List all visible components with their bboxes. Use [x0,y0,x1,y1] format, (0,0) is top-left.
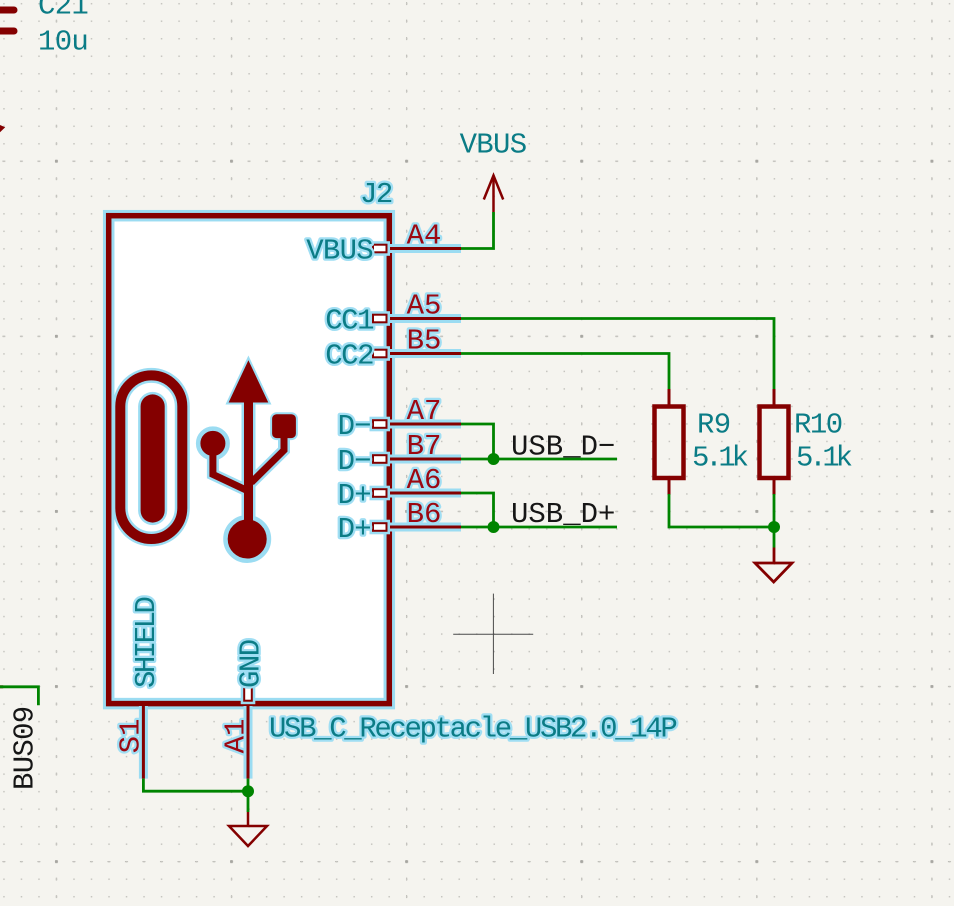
pin number A1 [219,719,252,754]
svg-text:D+: D+ [338,513,371,546]
svg-text:VBUS: VBUS [306,235,373,268]
svg-text:R9: R9 [697,409,730,442]
resistor R10 [760,389,852,495]
svg-text:VBUS: VBUS [460,129,527,162]
wire S1/A1 to GND [143,779,248,792]
wire R10 bottom [773,494,776,527]
junction D+ [488,521,500,533]
pin number A5 [407,290,442,323]
pin B7 [373,455,461,463]
USB logo: connector stadium [120,375,182,539]
USB logo: trident [198,361,295,560]
svg-text:GND: GND [234,640,267,688]
wire B7 USB_D- [461,458,617,461]
junction GND bottom [242,785,254,797]
pin number A6 [407,464,442,497]
pin name D+ (A6) [338,479,371,512]
wire CC1 to R10 [461,319,774,391]
pin A1 [244,687,252,778]
pin number B7 [407,430,442,463]
pin number S1 [115,719,148,754]
pin name VBUS [306,235,373,268]
pin name D+ (B6) [338,513,371,546]
power VBUS [460,129,527,213]
svg-text:R10: R10 [794,409,842,442]
pin A7 [373,420,461,428]
svg-text:B6: B6 [407,498,442,531]
pin B6 [373,523,461,531]
pin A5 [373,315,461,323]
pin S1 [139,706,148,779]
power GND (bottom) [229,791,267,846]
power GND (right) [755,527,792,582]
pin name SHIELD [130,597,163,688]
svg-text:C21: C21 [38,0,88,23]
svg-text:BUS09: BUS09 [9,706,42,790]
svg-text:B5: B5 [407,325,442,358]
svg-text:D−: D− [338,410,371,443]
pin name D- (B7) [338,445,371,478]
wire B6 USB_D+ [461,526,617,529]
pin B5 [373,350,461,358]
svg-text:CC2: CC2 [325,340,373,373]
pin name CC2 [325,340,373,373]
svg-text:S1: S1 [115,719,148,754]
wire A7 D- [461,424,494,459]
pin name GND [234,640,267,688]
symbol J2 body [109,216,390,704]
pin name CC1 [325,305,373,338]
svg-text:A1: A1 [219,719,252,754]
svg-text:A5: A5 [407,290,442,323]
pin number A4 [407,220,442,253]
svg-text:A6: A6 [407,464,442,497]
svg-text:5.1k: 5.1k [692,442,748,475]
svg-text:USB_D+: USB_D+ [511,498,615,531]
pin number A7 [407,395,442,428]
svg-text:USB_C_Receptacle_USB2.0_14P: USB_C_Receptacle_USB2.0_14P [269,713,676,746]
junction D- [488,453,500,465]
svg-text:10u: 10u [38,26,88,59]
power symbol fragment (left edge) [0,125,5,132]
svg-text:B7: B7 [407,430,442,463]
svg-text:A4: A4 [407,220,442,253]
svg-text:CC1: CC1 [325,305,373,338]
resistor R9 [655,389,748,495]
pin number B5 [407,325,442,358]
wire A4 to VBUS [461,212,494,249]
svg-text:USB_D−: USB_D− [511,431,615,464]
svg-text:5.1k: 5.1k [796,442,852,475]
pin name D- (A7) [338,410,371,443]
svg-text:SHIELD: SHIELD [130,597,163,688]
wire R9 bottom to junction [669,494,774,527]
capacitor C21 (partial, top-left) [0,0,88,59]
pin A4 [373,245,461,253]
wire A6 D+ [461,493,494,527]
svg-text:A7: A7 [407,395,442,428]
pin number B6 [407,498,442,531]
svg-text:D−: D− [338,445,371,478]
wire CC2 to R9 [461,354,669,391]
pin A6 [373,489,461,497]
junction (R dividers) [768,521,780,533]
wire BUS09 [0,687,38,706]
svg-text:J2: J2 [360,178,392,211]
svg-text:D+: D+ [338,479,371,512]
cursor crosshair [453,594,533,674]
